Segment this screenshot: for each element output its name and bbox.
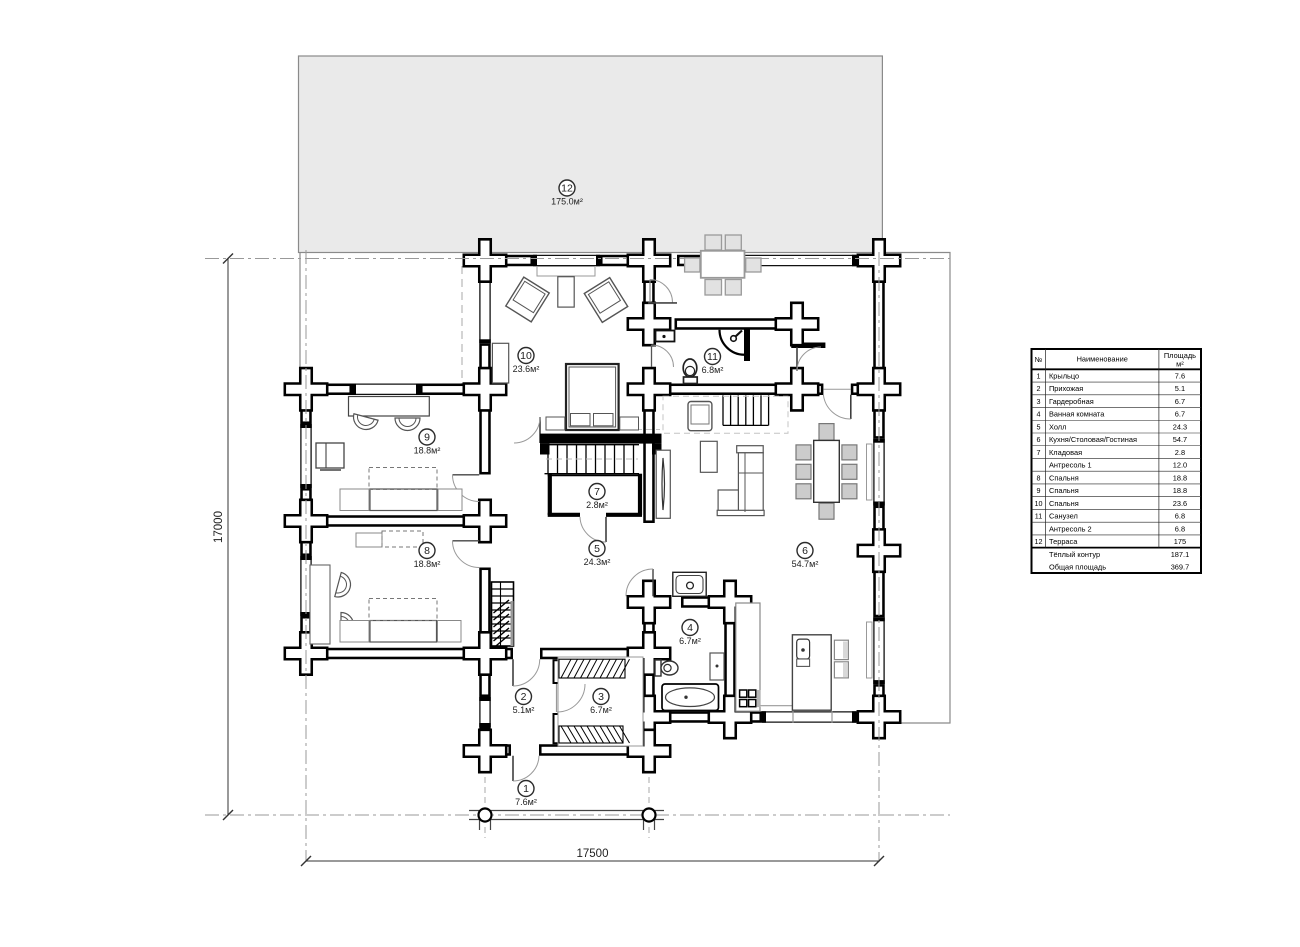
svg-text:17000: 17000 [213,511,225,543]
svg-text:12: 12 [1035,537,1043,546]
door room 6 [823,395,850,419]
area table [1032,349,1202,573]
nightstand left room 10 [546,417,565,430]
porch post left [479,809,492,822]
chair 2 room 9 [395,418,420,431]
radiator window room 6 [867,444,873,500]
armchair room 9 [316,443,344,470]
door room 2 bottom [513,756,539,781]
dimension bottom 17500 [301,848,884,866]
svg-text:Антресоль 1: Антресоль 1 [1049,461,1092,470]
svg-text:Холл: Холл [1049,422,1066,431]
svg-text:3: 3 [1037,397,1041,406]
svg-text:5: 5 [594,543,600,555]
svg-text:9: 9 [1037,486,1041,495]
room label 3 [590,689,612,716]
log walls [302,256,884,755]
wardrobe room 10 [492,343,508,383]
room label 11 [702,349,724,376]
svg-text:Кухня/Столовая/Гостиная: Кухня/Столовая/Гостиная [1049,435,1137,444]
dimension left 17000 [213,254,233,821]
axis stub below B porch [484,767,486,838]
svg-text:Спальня: Спальня [1049,499,1079,508]
dresser room 8 [356,531,423,547]
svg-text:9: 9 [424,432,430,444]
chair 1 room 8 [335,572,354,599]
room label 10 [513,348,540,375]
svg-text:7: 7 [1037,448,1041,457]
svg-text:5.1м²: 5.1м² [513,705,535,715]
axis overlay right [878,252,880,862]
kitchen counter bottom [755,706,830,712]
svg-text:2: 2 [521,691,527,703]
axis overlay left [305,250,307,862]
lounge chair 1 room 10 [506,277,549,322]
lounge chair 2 room 10 [584,278,627,323]
svg-text:5.1: 5.1 [1175,384,1185,393]
bathtub room 4 [662,684,719,711]
chair 2 room 8 [341,613,354,638]
storage room 7 door [580,517,606,542]
svg-text:4: 4 [1037,410,1041,419]
svg-text:6: 6 [1037,435,1041,444]
svg-text:23.6м²: 23.6м² [513,364,540,374]
armchair room 6 [688,402,712,431]
svg-text:369.7: 369.7 [1171,563,1190,572]
svg-text:Прихожая: Прихожая [1049,384,1083,393]
bar stool 1 [834,640,848,659]
svg-text:6.7м²: 6.7м² [590,705,612,715]
wall under bed room 10 [540,434,662,455]
windows [300,255,885,727]
axis line y1 horizontal [205,258,950,260]
door room 2 top [513,659,540,686]
axis line left vertical [305,250,307,862]
side table room 10 [558,277,574,307]
terrace slab (room 12) [299,56,883,253]
room label 12 [551,180,583,207]
svg-text:Гардеробная: Гардеробная [1049,397,1094,406]
chair 1 room 9 [351,414,378,433]
antresol dashed edge x462 [461,266,463,384]
door room 10 [514,417,540,443]
axis line porch horizontal [205,814,950,816]
coffee table room 6 [700,441,717,472]
svg-text:6.8: 6.8 [1175,512,1185,521]
svg-text:3: 3 [598,691,604,703]
axis stub below C porch [648,767,650,838]
sofa room 6 [717,446,764,516]
porch post right [643,809,656,822]
svg-text:54.7: 54.7 [1173,435,1187,444]
svg-text:6.8: 6.8 [1175,524,1185,533]
washbasin room 11 [656,331,675,342]
desk room 8 [310,565,330,644]
terrace edge below left wing [299,253,301,384]
roof overhang outline right [882,253,950,724]
svg-text:7.6: 7.6 [1175,371,1185,380]
door room 9 [453,475,480,502]
svg-text:54.7м²: 54.7м² [792,559,819,569]
svg-text:11: 11 [707,351,718,363]
svg-text:2.8м²: 2.8м² [586,500,608,510]
nightstand right room 10 [620,417,639,430]
svg-text:м²: м² [1176,360,1184,369]
radiator window kitchen [867,622,873,678]
svg-text:1: 1 [523,783,529,795]
svg-text:24.3: 24.3 [1173,422,1187,431]
svg-text:10: 10 [1035,499,1043,508]
washer room 4 [710,653,724,680]
antresol 2 dashed left edge [596,380,660,430]
svg-text:№: № [1035,355,1043,364]
room label 6 [792,543,819,570]
svg-text:6: 6 [802,545,808,557]
svg-text:1: 1 [1037,371,1041,380]
svg-text:12.0: 12.0 [1173,461,1187,470]
svg-text:2: 2 [1037,384,1041,393]
bar stool 2 [834,662,848,678]
svg-text:175.0м²: 175.0м² [551,197,583,207]
room label 7 [586,484,608,511]
door room 8 [453,541,480,568]
svg-text:2.8: 2.8 [1175,448,1185,457]
stairs upper flight [723,395,769,425]
svg-text:Санузел: Санузел [1049,512,1078,521]
desk room 9 [349,397,430,417]
svg-text:6.8м²: 6.8м² [702,365,724,375]
door room 3 [557,684,586,712]
svg-text:8: 8 [424,545,430,557]
sink hall [673,572,706,596]
stairs main flight [545,445,640,474]
door terrace [648,280,677,303]
opening sill room 6 [823,388,850,390]
room label 1 [515,781,537,808]
svg-text:6.7: 6.7 [1175,397,1185,406]
room label 5 [584,541,611,568]
dining table room 6 [796,424,857,520]
door lobby D [797,347,821,371]
svg-text:Терраса: Терраса [1049,537,1078,546]
svg-text:Тёплый контур: Тёплый контур [1049,550,1100,559]
svg-text:Спальня: Спальня [1049,473,1079,482]
toilet room 4 [655,660,678,676]
door bath 11 [652,345,674,367]
svg-text:23.6: 23.6 [1173,499,1187,508]
svg-text:Крыльцо: Крыльцо [1049,371,1079,380]
svg-text:187.1: 187.1 [1171,550,1190,559]
svg-text:7: 7 [594,486,600,498]
svg-text:Кладовая: Кладовая [1049,448,1082,457]
svg-text:175: 175 [1174,537,1186,546]
room label 9 [414,429,441,456]
stove [740,690,761,707]
tv cabinet room 6 [656,450,670,518]
toilet room 11 [683,359,697,384]
terrace table set [685,235,761,295]
svg-text:18.8: 18.8 [1173,486,1187,495]
svg-text:4: 4 [687,622,693,634]
svg-text:18.8м²: 18.8м² [414,446,441,456]
svg-text:Антресоль 2: Антресоль 2 [1049,524,1092,533]
shower room 11 [720,329,751,362]
svg-text:8: 8 [1037,473,1041,482]
svg-text:10: 10 [520,350,532,362]
svg-text:6.7м²: 6.7м² [679,636,701,646]
stairs small flight [492,582,514,648]
bed room 8 [340,599,461,643]
svg-text:7.6м²: 7.6м² [515,797,537,807]
svg-text:17500: 17500 [577,848,609,860]
axis overlay y1 [230,258,950,260]
storage room 7 walls [548,474,642,515]
axis line right vertical [878,252,880,862]
svg-text:Общая площадь: Общая площадь [1049,563,1106,572]
log crossings [285,239,900,772]
svg-text:18.8: 18.8 [1173,473,1187,482]
svg-text:24.3м²: 24.3м² [584,557,611,567]
room label 8 [414,543,441,570]
svg-text:Спальня: Спальня [1049,486,1079,495]
kitchen island [792,635,831,710]
svg-text:Ванная комната: Ванная комната [1049,410,1105,419]
antresol 2 dashed outline [663,396,788,433]
svg-text:12: 12 [561,183,573,195]
bed room 9 [340,468,462,511]
room label 2 [513,689,535,716]
bed room 10 [566,364,619,430]
svg-text:5: 5 [1037,422,1041,431]
svg-text:11: 11 [1035,512,1042,521]
svg-text:Наименование: Наименование [1077,355,1128,364]
svg-text:6.7: 6.7 [1175,410,1185,419]
room label 4 [679,620,701,647]
porch beam [469,811,664,831]
kitchen counter [736,603,760,711]
radiator room 10 [537,267,595,277]
door bath 4 [626,569,653,596]
closet shelves room 3 [558,657,643,746]
svg-text:18.8м²: 18.8м² [414,559,441,569]
